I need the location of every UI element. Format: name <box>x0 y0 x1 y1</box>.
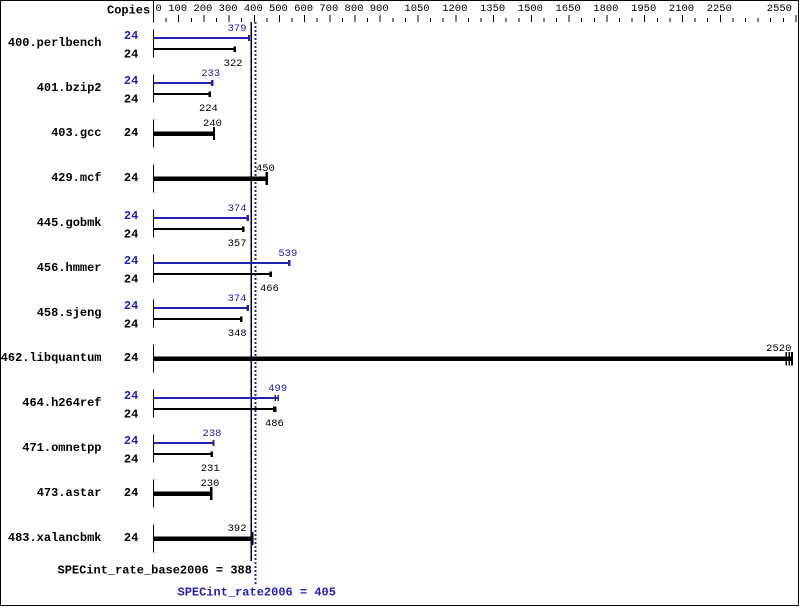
svg-text:458.sjeng: 458.sjeng <box>37 306 102 320</box>
header divider (plot left boundary at axis header) <box>153 1 154 23</box>
svg-text:2100: 2100 <box>669 3 694 15</box>
svg-text:240: 240 <box>203 118 222 130</box>
svg-text:24: 24 <box>124 272 138 286</box>
svg-text:357: 357 <box>228 238 247 250</box>
svg-text:401.bzip2: 401.bzip2 <box>37 81 102 95</box>
svg-text:483.xalancbmk: 483.xalancbmk <box>8 531 102 545</box>
svg-text:24: 24 <box>124 407 138 421</box>
svg-text:24: 24 <box>124 434 138 448</box>
group 401.bzip2 <box>37 68 220 115</box>
svg-text:24: 24 <box>124 92 138 106</box>
svg-text:400.perlbench: 400.perlbench <box>8 36 102 50</box>
svg-text:1950: 1950 <box>631 3 656 15</box>
group 464.h264ref <box>22 383 287 430</box>
svg-text:300: 300 <box>219 3 238 15</box>
svg-text:445.gobmk: 445.gobmk <box>37 216 102 230</box>
svg-text:100: 100 <box>168 3 187 15</box>
svg-text:1650: 1650 <box>555 3 580 15</box>
svg-text:456.hmmer: 456.hmmer <box>37 261 102 275</box>
svg-text:24: 24 <box>124 171 138 185</box>
svg-text:24: 24 <box>124 47 138 61</box>
svg-text:600: 600 <box>294 3 313 15</box>
svg-text:200: 200 <box>193 3 212 15</box>
svg-text:450: 450 <box>256 163 275 175</box>
svg-text:230: 230 <box>200 478 219 490</box>
svg-text:24: 24 <box>124 227 138 241</box>
svg-text:322: 322 <box>224 58 243 70</box>
svg-text:SPECint_rate2006 = 405: SPECint_rate2006 = 405 <box>178 586 336 600</box>
svg-text:24: 24 <box>124 74 138 88</box>
svg-text:1200: 1200 <box>442 3 467 15</box>
svg-text:0: 0 <box>156 3 162 15</box>
svg-text:Copies: Copies <box>107 3 150 17</box>
svg-text:392: 392 <box>228 523 247 535</box>
svg-text:374: 374 <box>228 293 247 305</box>
svg-text:SPECint_rate_base2006 = 388: SPECint_rate_base2006 = 388 <box>58 563 252 577</box>
group 483.xalancbmk <box>8 523 254 553</box>
svg-text:374: 374 <box>228 203 247 215</box>
svg-text:471.omnetpp: 471.omnetpp <box>22 441 101 455</box>
group 456.hmmer <box>37 248 298 295</box>
svg-text:233: 233 <box>201 68 220 80</box>
svg-text:539: 539 <box>278 248 297 260</box>
svg-text:24: 24 <box>124 486 138 500</box>
svg-text:224: 224 <box>199 103 218 115</box>
svg-text:2250: 2250 <box>707 3 732 15</box>
group 473.astar <box>37 478 220 508</box>
base median reference line (388, solid black) <box>250 22 252 561</box>
svg-text:348: 348 <box>228 328 247 340</box>
svg-text:379: 379 <box>228 23 247 35</box>
svg-text:1500: 1500 <box>518 3 543 15</box>
svg-text:24: 24 <box>124 299 138 313</box>
x-axis tick marks <box>153 15 796 22</box>
svg-text:700: 700 <box>319 3 338 15</box>
svg-text:473.astar: 473.astar <box>37 486 102 500</box>
svg-text:403.gcc: 403.gcc <box>51 126 101 140</box>
svg-text:24: 24 <box>124 254 138 268</box>
svg-text:24: 24 <box>124 317 138 331</box>
peak median reference line (405, dotted blue) <box>255 22 257 584</box>
svg-text:24: 24 <box>124 126 138 140</box>
svg-text:499: 499 <box>268 383 287 395</box>
group 400.perlbench <box>8 23 250 70</box>
group 429.mcf <box>51 163 275 193</box>
svg-text:466: 466 <box>260 283 279 295</box>
svg-text:231: 231 <box>201 463 220 475</box>
svg-text:24: 24 <box>124 452 138 466</box>
svg-text:400: 400 <box>244 3 263 15</box>
svg-text:1350: 1350 <box>480 3 505 15</box>
svg-text:462.libquantum: 462.libquantum <box>1 351 102 365</box>
svg-text:2520: 2520 <box>766 343 791 355</box>
group 462.libquantum <box>1 343 793 373</box>
group 403.gcc <box>51 118 222 148</box>
svg-text:1050: 1050 <box>404 3 429 15</box>
svg-text:2550: 2550 <box>767 3 792 15</box>
svg-text:464.h264ref: 464.h264ref <box>22 396 101 410</box>
svg-text:24: 24 <box>124 389 138 403</box>
svg-text:24: 24 <box>124 531 138 545</box>
svg-text:24: 24 <box>124 351 138 365</box>
svg-text:429.mcf: 429.mcf <box>51 171 101 185</box>
svg-text:486: 486 <box>265 418 284 430</box>
svg-text:800: 800 <box>345 3 364 15</box>
svg-text:1800: 1800 <box>593 3 618 15</box>
svg-text:500: 500 <box>269 3 288 15</box>
group 445.gobmk <box>37 203 249 250</box>
svg-text:24: 24 <box>124 209 138 223</box>
group 458.sjeng <box>37 293 249 340</box>
svg-text:238: 238 <box>203 428 222 440</box>
x-axis numeric labels <box>156 3 793 15</box>
group 471.omnetpp <box>22 428 221 475</box>
svg-text:900: 900 <box>370 3 389 15</box>
svg-text:24: 24 <box>124 29 138 43</box>
